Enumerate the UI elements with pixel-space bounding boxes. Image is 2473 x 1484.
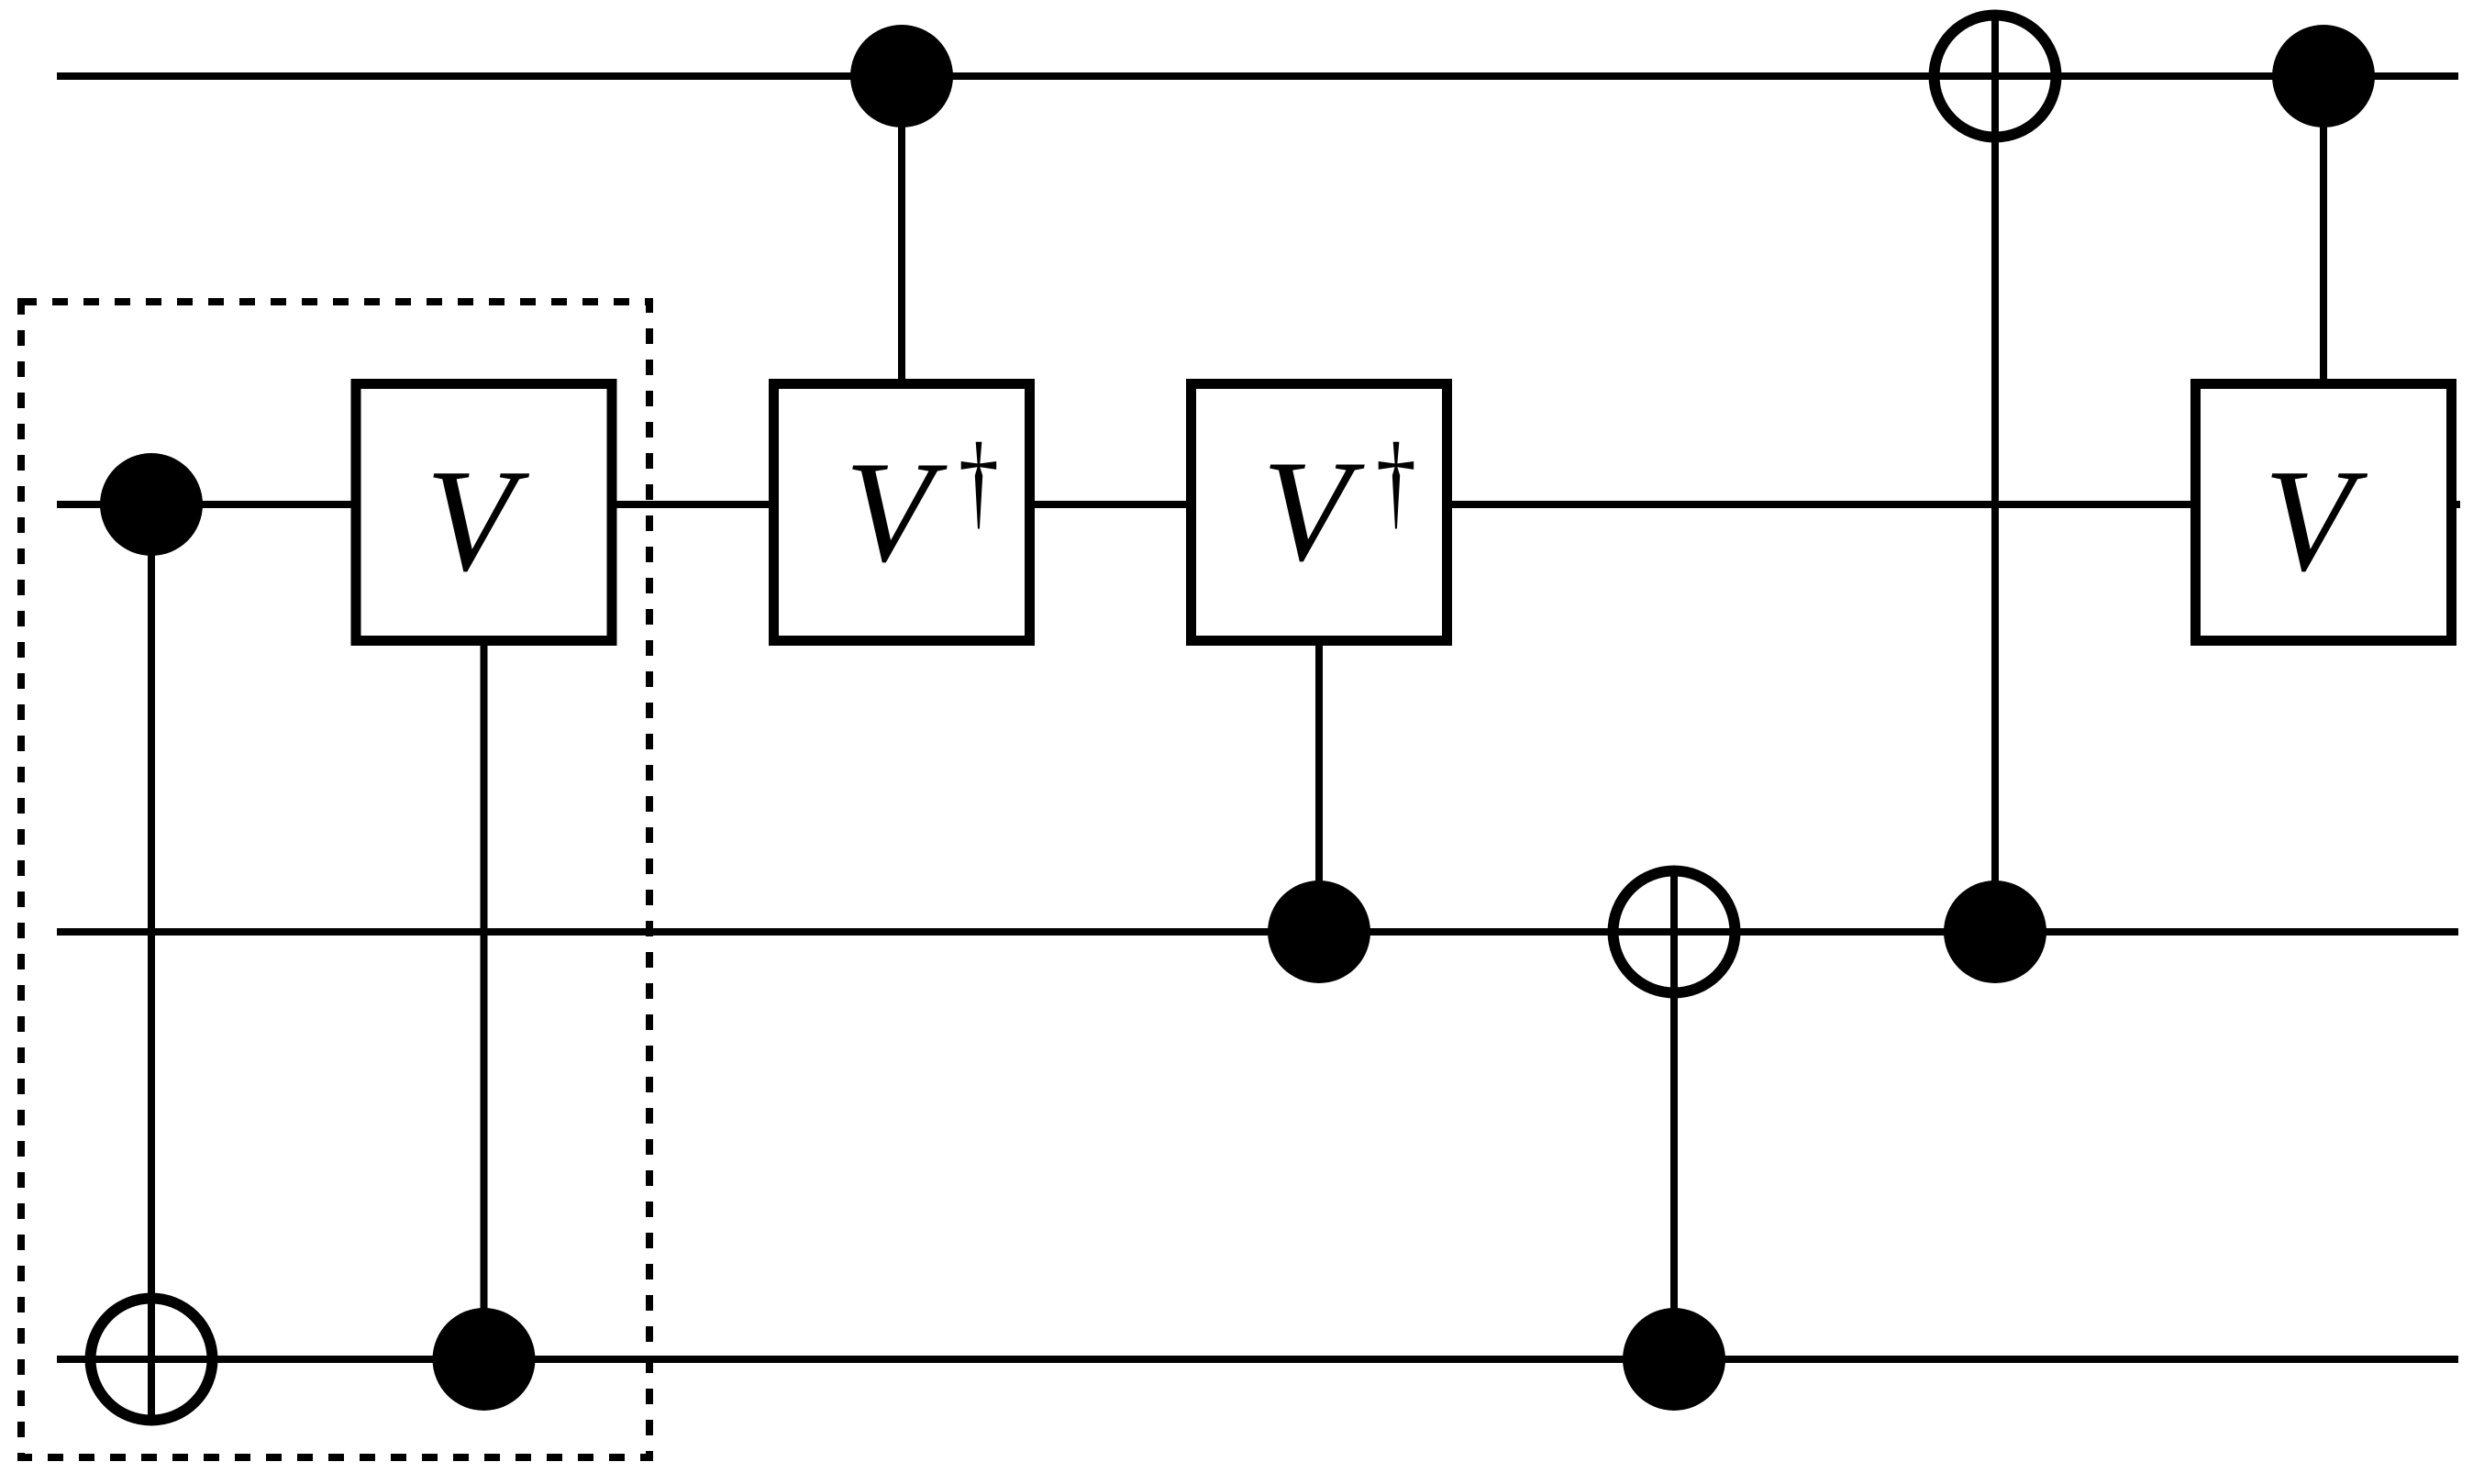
gate box U2: controlled-V-dagger (column 3) [774,384,1030,641]
wire: vertical control line V-dagger box to q2 (column 4) [1315,646,1323,932]
XOR target on q0 (column 6) [1935,16,2057,138]
control dot on q3 (column 5) [1623,1308,1725,1411]
svg-text:V: V [426,438,530,602]
wire: vertical control line V box to q3 (column 2) [481,646,488,1359]
wire q0 (top qubit line) [57,72,2458,80]
svg-text:V: V [2264,438,2368,602]
gate box U1: controlled-V (column 2) [356,384,612,641]
gate box U4: controlled-V (column 7) [2196,384,2452,641]
wire q2 (third qubit line) [57,928,2458,936]
wire q1 (second qubit line) [57,501,2460,508]
svg-text:†: † [959,422,999,540]
wire: vertical control line CNOT q1->q3 (column 1) [148,504,155,1424]
XOR target on q2 (column 5) [1614,871,1736,993]
control dot on q1 (column 1) [100,453,203,556]
control dot on q0 (column 3) [850,25,953,127]
dashed grouping box [21,302,649,1457]
wire: vertical control line CNOT q2->q3 (column 5) [1670,866,1678,1359]
svg-text:V: V [1262,431,1365,592]
svg-text:†: † [1376,422,1416,540]
wire: vertical control line q0 to V-dagger box (column 3) [898,76,905,379]
control dot on q0 (column 7) [2272,25,2375,127]
XOR target on q3 (column 1) [91,1299,213,1421]
wire: vertical control line q0 to V box (column 7) [2320,76,2327,379]
svg-text:V: V [845,432,948,592]
wire q3 (bottom qubit line) [57,1356,2458,1363]
wire: vertical control line CNOT q0->q2 (column 6) [1991,12,1999,932]
gate box U3: controlled-V-dagger (column 4) [1192,384,1447,641]
control dot on q2 (column 4) [1268,880,1370,983]
control dot on q3 (column 2) [433,1308,536,1411]
control dot on q2 (column 6) [1944,880,2046,983]
